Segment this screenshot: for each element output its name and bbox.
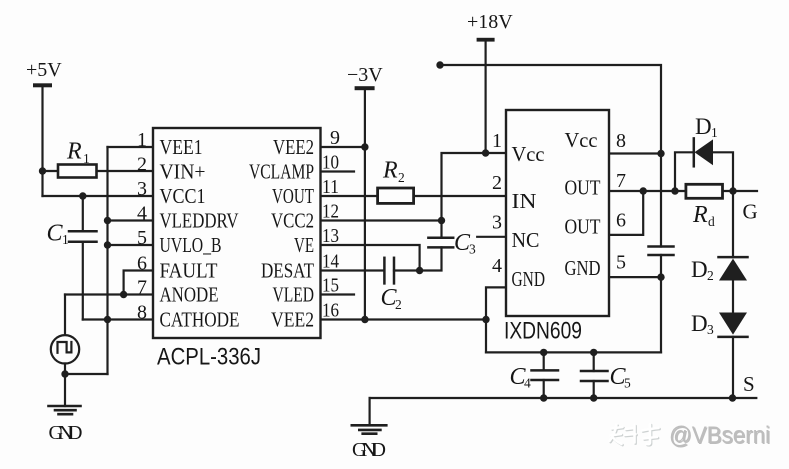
svg-text:1: 1 — [137, 129, 147, 151]
op-amp U1 ACPL-336J body — [153, 128, 321, 338]
svg-text:ACPL-336J: ACPL-336J — [157, 344, 261, 371]
svg-text:GND: GND — [49, 422, 83, 444]
svg-text:GND: GND — [565, 256, 601, 280]
wire ACPL pin 7 ANODE row — [65, 293, 152, 295]
svg-text:VOUT: VOUT — [272, 184, 314, 208]
svg-text:11: 11 — [322, 176, 339, 198]
node VEE2/-3V junction — [361, 316, 368, 323]
wire GND2 symbol stem — [369, 398, 371, 425]
svg-text:1: 1 — [711, 125, 718, 140]
node D1/Rd left junction — [671, 187, 678, 194]
svg-text:4: 4 — [137, 203, 147, 225]
wire -3V rail down to VEE2 row — [364, 90, 366, 320]
wire bottom link to ground bus — [65, 373, 108, 375]
svg-text:2: 2 — [492, 172, 502, 194]
diode D2 — [719, 257, 748, 280]
ACPL pin names — [160, 135, 315, 332]
wire D2 to D3 — [732, 281, 734, 313]
wire pulse source top lead — [64, 295, 66, 336]
svg-text:14: 14 — [322, 251, 339, 273]
svg-text:3: 3 — [492, 212, 502, 234]
svg-text:DESAT: DESAT — [261, 259, 314, 283]
wire ACPL pin 16 VEE2 row — [322, 318, 487, 320]
svg-text:8: 8 — [137, 302, 147, 324]
svg-text:+18V: +18V — [467, 11, 513, 33]
wire IXDN pin 5 GND stub — [610, 276, 661, 278]
wire ACPL pin 15 VLED stub — [322, 293, 355, 295]
wire R2 to IXDN pin 2 IN — [414, 195, 505, 197]
svg-text:CATHODE: CATHODE — [160, 308, 240, 332]
resistor R2 — [378, 188, 414, 203]
ground GND1 — [49, 406, 81, 414]
svg-text:FAULT: FAULT — [160, 259, 218, 283]
wire ACPL pin 10 VCLAMP stub — [322, 170, 355, 172]
wire R1 right lead to ACPL pin 2 — [97, 170, 153, 172]
wire G node down to D2 — [732, 191, 734, 257]
node OUT tie junction — [640, 187, 647, 194]
svg-text:D: D — [691, 311, 708, 336]
svg-text:C: C — [47, 221, 64, 247]
node C1 top junction — [79, 192, 86, 199]
svg-text:Vcc: Vcc — [512, 142, 545, 166]
svg-text:4: 4 — [524, 376, 531, 391]
wire GND1 stem — [64, 374, 66, 406]
svg-text:5: 5 — [624, 376, 631, 391]
ACPL pin numbers — [137, 127, 340, 324]
wire ACPL pin 5 UVLO_B — [108, 244, 153, 246]
svg-text:2: 2 — [395, 297, 402, 312]
svg-text:7: 7 — [137, 277, 147, 299]
capacitor C2 — [384, 258, 394, 284]
wire R1 left lead — [43, 170, 59, 172]
svg-text:16: 16 — [322, 300, 339, 322]
svg-text:3: 3 — [469, 242, 476, 257]
node C5 top junction — [590, 349, 597, 356]
svg-text:2: 2 — [707, 268, 714, 283]
capacitor C1 — [69, 231, 97, 241]
wire IXDN pin 6 OUT tied up to pin 7 — [610, 191, 643, 235]
svg-text:VIN+: VIN+ — [160, 160, 206, 184]
svg-text:1: 1 — [62, 232, 69, 247]
wire +5V to ACPL pin 3 VCC1 — [43, 195, 153, 197]
wire ACPL pin 12 VCC2 — [322, 219, 442, 221]
svg-text:9: 9 — [330, 127, 340, 149]
svg-text:R: R — [382, 158, 398, 184]
wire IXDN pin 4 GND stub and riser — [486, 287, 505, 352]
svg-text:1: 1 — [83, 151, 90, 166]
svg-text:5: 5 — [137, 227, 147, 249]
svg-text:15: 15 — [322, 275, 339, 297]
svg-text:D: D — [695, 114, 712, 139]
node FAULT/ANODE junction — [120, 291, 127, 298]
node VCC2/C3 junction — [438, 217, 445, 224]
wire ACPL pin 14 DESAT to C2 — [322, 269, 385, 271]
wire GND2 rail — [486, 351, 661, 353]
svg-text:VCLAMP: VCLAMP — [249, 160, 314, 184]
svg-text:1: 1 — [492, 130, 502, 152]
svg-text:VCC1: VCC1 — [160, 184, 206, 208]
resistor R1 — [58, 165, 97, 178]
diode D1 — [694, 138, 713, 166]
svg-text:6: 6 — [137, 253, 147, 275]
node pin9 junction — [361, 143, 368, 150]
svg-text:G: G — [743, 200, 758, 224]
wire source/ground bottom rail — [370, 397, 757, 399]
svg-text:2: 2 — [398, 170, 405, 185]
wire +18V stem down to IXDN pin 1 — [485, 41, 487, 153]
+5V supply symbol — [33, 83, 52, 87]
svg-text:VEE1: VEE1 — [160, 135, 203, 159]
svg-text:S: S — [743, 372, 755, 396]
svg-text:OUT: OUT — [565, 215, 601, 239]
node Rd right junction — [729, 187, 736, 194]
node C4 bottom junction — [540, 394, 547, 401]
wire ACPL pin 6 FAULT tied down to ANODE row — [124, 271, 152, 295]
wire C3 top lead — [440, 221, 442, 238]
node +18V rail left terminal — [436, 61, 443, 68]
wire C2 right to junction and up to C3 bottom — [394, 247, 442, 270]
wire IXDN pin 8 Vcc stub — [610, 152, 661, 154]
svg-text:6: 6 — [616, 210, 626, 232]
node VE/DESAT junction — [416, 267, 423, 274]
wire IXDN pin 7 OUT row to gate G — [610, 190, 757, 192]
node pin5 junction — [104, 241, 111, 248]
wire C1 top lead — [82, 196, 84, 231]
svg-text:R: R — [692, 202, 708, 228]
svg-text:5: 5 — [616, 252, 626, 274]
svg-text:d: d — [708, 214, 715, 229]
wire C4 leads — [543, 352, 545, 398]
svg-text:−3V: −3V — [347, 64, 383, 86]
capacitor C3 — [428, 238, 453, 248]
capacitor C5 — [581, 371, 608, 381]
svg-text:IXDN609: IXDN609 — [504, 318, 582, 345]
wire CATHODE row to ACPL pin 8 — [83, 318, 152, 320]
node +18V/pin1 junction — [482, 149, 489, 156]
svg-text:OUT: OUT — [565, 176, 601, 200]
svg-text:10: 10 — [322, 152, 339, 174]
svg-text:UVLO_B: UVLO_B — [160, 233, 222, 257]
svg-text:VLED: VLED — [273, 283, 315, 307]
wire decoupling cap bottom lead — [660, 255, 662, 352]
wire VCC2 riser to IXDN pin 1 Vcc — [442, 153, 506, 221]
svg-text:R: R — [66, 139, 82, 165]
pulse source V1 — [51, 335, 79, 363]
svg-text:@VBserni: @VBserni — [669, 422, 770, 449]
wire ACPL pin 4 VLEDDRV — [108, 219, 153, 221]
wire +5V stem down to VCC1 row — [41, 87, 43, 196]
svg-text:3: 3 — [707, 322, 714, 337]
svg-text:GND: GND — [512, 267, 546, 291]
svg-text:VCC2: VCC2 — [271, 209, 314, 233]
resistor Rd — [686, 184, 723, 198]
wire D1 branch right riser — [713, 152, 733, 191]
wire ACPL pin 1 VEE1 — [108, 146, 153, 148]
svg-text:GND: GND — [352, 439, 386, 461]
IXDN pin names — [512, 128, 601, 291]
wire +18V top rail — [440, 65, 661, 247]
svg-text:+5V: +5V — [26, 59, 62, 81]
svg-text:8: 8 — [616, 130, 626, 152]
ground GND2 — [352, 425, 387, 433]
wire ACPL pin 13 VE down to DESAT net — [322, 245, 420, 271]
svg-text:IN: IN — [512, 189, 537, 213]
capacitor C6 (decoupling) — [649, 247, 674, 256]
svg-text:NC: NC — [512, 228, 540, 252]
wire ACPL pin 9 VEE2 — [322, 146, 365, 148]
wire D1 branch left riser — [675, 152, 694, 191]
node pulse source bottom junction — [61, 370, 68, 377]
svg-text:D: D — [691, 257, 708, 282]
wire C1 bottom lead down to CATHODE row — [82, 242, 84, 320]
node S junction — [729, 394, 736, 401]
IXDN pin numbers — [492, 130, 626, 277]
svg-text:ANODE: ANODE — [160, 283, 219, 307]
wire ground bus vertical (line B) — [106, 147, 108, 374]
svg-text:3: 3 — [137, 178, 147, 200]
wire D3 down to source rail — [732, 337, 734, 398]
node +5V/R1 junction — [39, 167, 46, 174]
svg-text:VE: VE — [294, 233, 314, 257]
node C4 top junction — [540, 349, 547, 356]
svg-text:VLEDDRV: VLEDDRV — [160, 209, 239, 233]
node pin5/cap junction — [657, 273, 664, 280]
svg-text:13: 13 — [322, 225, 339, 247]
+18V supply symbol — [477, 38, 495, 42]
-3V supply symbol — [355, 86, 375, 90]
node IXDN pin8 junction — [657, 150, 664, 157]
svg-text:VEE2: VEE2 — [273, 135, 314, 159]
capacitor C4 — [532, 370, 559, 380]
svg-text:2: 2 — [137, 154, 147, 176]
node pin8 junction — [104, 316, 111, 323]
node C5 bottom junction — [590, 394, 597, 401]
svg-text:4: 4 — [492, 255, 502, 277]
transistor-driver U2 IXDN609 body — [506, 110, 609, 316]
node GND2/VEE2 junction — [482, 316, 489, 323]
wire ACPL pin 11 VOUT to R2 — [322, 195, 378, 197]
node pin4 junction — [104, 217, 111, 224]
wire pulse source bottom lead — [64, 364, 66, 375]
diode D3 — [719, 313, 748, 337]
svg-text:12: 12 — [322, 201, 339, 223]
wire C5 leads — [593, 352, 595, 398]
wire IXDN pin 3 NC stub — [477, 236, 505, 238]
watermark zhihu @VBserni — [610, 422, 772, 450]
svg-text:VEE2: VEE2 — [271, 308, 314, 332]
svg-text:7: 7 — [616, 170, 626, 192]
svg-text:Vcc: Vcc — [565, 128, 598, 152]
